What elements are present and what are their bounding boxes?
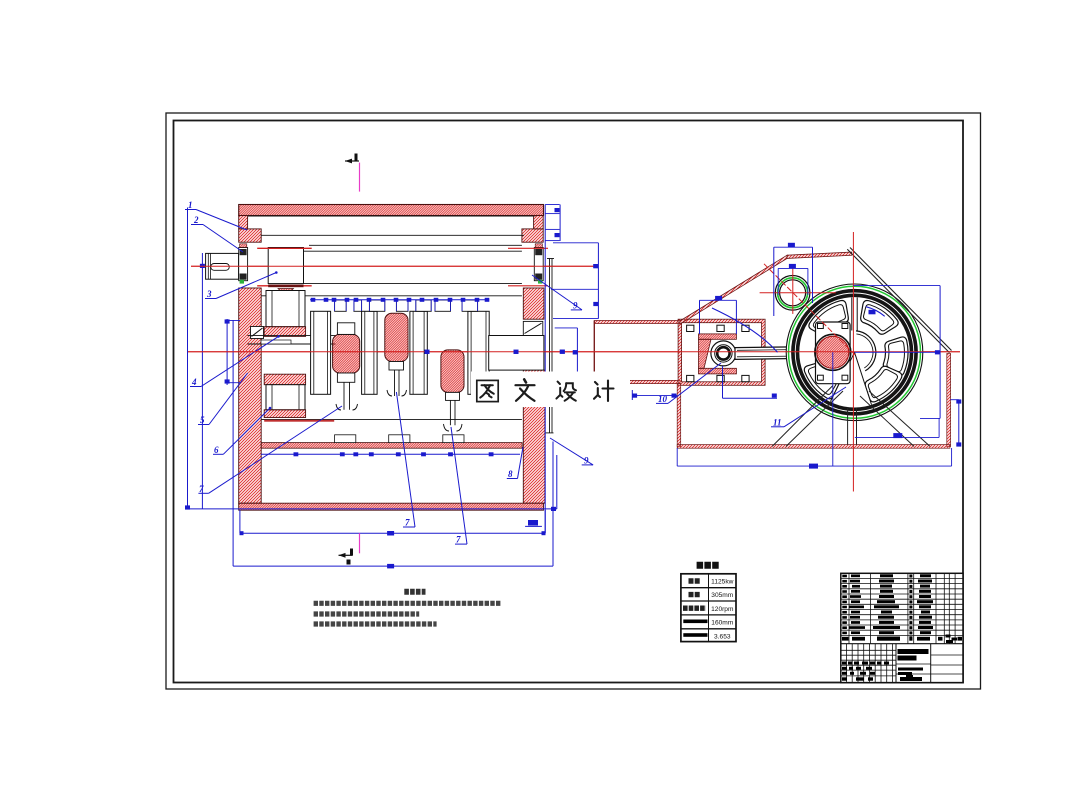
section mark bottom xyxy=(339,533,360,564)
left bottom dim xyxy=(632,395,677,397)
svg-text:120rpm: 120rpm xyxy=(711,606,734,613)
dim vertical left3 xyxy=(232,320,234,566)
intermediate shaft lines xyxy=(248,335,337,337)
svg-text:160mm: 160mm xyxy=(711,620,733,627)
guard right diagonal xyxy=(847,249,949,353)
svg-text:3: 3 xyxy=(206,289,212,299)
bore line upper xyxy=(304,250,522,252)
title block lower grid xyxy=(841,644,963,683)
top dim row over valves xyxy=(310,299,489,301)
right crankcase wall upper xyxy=(523,288,544,319)
right cover plate xyxy=(545,259,554,433)
top spoke xyxy=(851,298,853,331)
centerline overlay upper xyxy=(191,265,595,267)
dim verticals bottom xyxy=(239,510,241,533)
upper shaft centerline xyxy=(191,265,595,267)
valve box 6 xyxy=(435,300,451,311)
parameter table title xyxy=(697,562,720,569)
piston 2 (hatched) xyxy=(385,313,408,396)
base left wall xyxy=(677,384,681,447)
rim mid white line xyxy=(795,293,914,412)
bore line lower xyxy=(304,283,522,285)
crankshaft output end xyxy=(489,336,544,371)
watermark glyph tu xyxy=(477,380,498,401)
watermark glyph wen xyxy=(516,379,535,400)
leader 9 upper xyxy=(532,275,582,310)
guide top line xyxy=(261,295,522,297)
red mark line upper xyxy=(257,247,312,249)
leader 6 xyxy=(213,408,270,455)
right red marks xyxy=(508,247,548,249)
leader 7 left xyxy=(198,406,342,494)
title block parts grid xyxy=(841,573,963,643)
centerline squares xyxy=(514,350,519,354)
crosshead guide block 1 xyxy=(311,311,331,394)
crankshaft centerline (spans both views) xyxy=(188,351,960,353)
outer border frame xyxy=(166,113,981,689)
crosshead pin xyxy=(711,341,736,366)
pulley vertical centerline xyxy=(792,267,794,314)
pulley dim inner xyxy=(777,268,779,295)
pulley horizontal centerline xyxy=(760,292,836,294)
guard right strip (hatched) xyxy=(947,354,951,447)
note line 3 xyxy=(314,621,437,626)
box bolt bottom xyxy=(742,375,749,381)
valve box 7 xyxy=(462,300,478,311)
flywheel sector 4 xyxy=(804,362,839,399)
mid band dim row xyxy=(261,453,520,455)
crank pin (hatched) xyxy=(815,334,851,370)
svg-text:10: 10 xyxy=(658,394,668,404)
dark band xyxy=(268,285,303,288)
box bolt bottom xyxy=(687,375,694,381)
bottom dim line 1 xyxy=(188,508,557,510)
valve seat notch 2 xyxy=(389,435,410,443)
small dim under slab right xyxy=(525,525,542,527)
svg-text:7: 7 xyxy=(456,535,461,545)
box bolt bottom xyxy=(717,375,724,381)
box bolt top xyxy=(742,325,749,331)
leader 5 xyxy=(198,373,248,425)
svg-text:8: 8 xyxy=(508,469,513,479)
box bolt top xyxy=(687,325,694,331)
valve box 1 xyxy=(335,300,347,311)
leader 7 mid xyxy=(396,392,415,528)
base bottom band xyxy=(677,445,950,449)
hub arc xyxy=(856,331,876,371)
svg-text:1125kw: 1125kw xyxy=(711,578,733,585)
crank vertical line xyxy=(832,352,834,466)
note line 2 xyxy=(314,611,420,616)
svg-text:6: 6 xyxy=(214,445,219,455)
section mark top xyxy=(345,154,360,192)
right column xyxy=(534,216,544,229)
left main bearing xyxy=(239,244,248,284)
guide tube bottom wall xyxy=(594,380,680,383)
left wall bearing cage xyxy=(251,327,264,339)
parameter table frame xyxy=(681,574,736,642)
inner bottom band xyxy=(261,443,522,449)
dim vertical left2 xyxy=(201,253,203,509)
crank big-end head xyxy=(816,322,851,384)
centerline overlay main xyxy=(188,351,960,353)
parts header blobs xyxy=(842,635,962,644)
leader 8 xyxy=(507,447,523,479)
right vertical dim xyxy=(958,400,960,447)
lower text blobs xyxy=(842,662,923,682)
flywheel sector 2 xyxy=(861,300,899,334)
crosshead wedge xyxy=(699,339,712,368)
stand legs xyxy=(772,385,930,446)
funnel xyxy=(278,289,294,295)
svg-text:4: 4 xyxy=(191,377,197,387)
crosshead pin vertical dim xyxy=(722,366,724,398)
upper guide spool xyxy=(264,291,305,337)
bottom dim line 3 xyxy=(233,565,553,567)
crosshead guide block 4 xyxy=(468,311,489,394)
crosshead guide block 2 xyxy=(362,311,378,394)
line under beam xyxy=(248,215,536,217)
connecting rod xyxy=(735,347,816,360)
flywheel rim (thick) xyxy=(795,293,914,412)
diagonal centerline xyxy=(764,264,856,356)
valve box 2 xyxy=(354,300,362,311)
right crankcase wall lower xyxy=(523,370,545,503)
flywheel vertical centerline xyxy=(852,232,854,492)
barrel line 2 xyxy=(309,244,522,246)
leader 11 xyxy=(771,387,846,427)
shaft keyway xyxy=(211,264,229,271)
valve box 3 xyxy=(369,300,384,311)
guide tube top wall xyxy=(594,321,680,324)
coupling hub xyxy=(268,248,303,284)
crank circle arc xyxy=(712,308,778,352)
box bolt top xyxy=(717,325,724,331)
left crankcase wall xyxy=(239,288,262,503)
bottom dim line 2 xyxy=(240,532,545,534)
svg-text:11: 11 xyxy=(773,417,782,427)
piston 3 (hatched) xyxy=(441,350,464,431)
box top dim xyxy=(700,299,737,301)
inner border frame xyxy=(174,121,964,683)
valve seat notch 3 xyxy=(443,435,464,443)
right dim box xyxy=(597,243,599,319)
watermark glyph she xyxy=(556,382,576,401)
right vertical dim connector xyxy=(544,205,546,534)
flywheel outer circle xyxy=(786,284,923,421)
svg-text:3.653: 3.653 xyxy=(714,633,731,640)
right main bearing xyxy=(534,244,543,284)
flywheel sector 1 xyxy=(809,300,848,336)
right step block xyxy=(522,229,543,242)
lower red strip xyxy=(264,420,334,422)
crosshead shoe bottom flange xyxy=(699,368,737,374)
svg-text:2: 2 xyxy=(193,215,199,225)
lower rail line xyxy=(261,418,522,420)
top beam (hatched cylinder body) xyxy=(239,205,544,216)
leader 7 right xyxy=(451,427,467,545)
svg-text:1: 1 xyxy=(188,200,193,210)
param black bars xyxy=(683,620,707,624)
valve box 4 xyxy=(396,300,408,311)
crank end dim xyxy=(555,327,578,329)
valve box 5 xyxy=(416,300,431,311)
right wall bearing cage xyxy=(523,321,543,335)
flywheel green circle xyxy=(789,286,921,418)
right top bracket 2 xyxy=(545,228,559,230)
left step block xyxy=(239,229,262,242)
pulley dim outer xyxy=(773,247,775,316)
drive shaft stub xyxy=(206,253,239,279)
svg-text:7: 7 xyxy=(199,484,204,494)
svg-text:305mm: 305mm xyxy=(711,592,733,599)
flywheel sector 3 xyxy=(883,337,908,376)
belt guard top strip xyxy=(787,252,852,258)
bottom slab xyxy=(239,503,544,510)
left column xyxy=(239,216,248,229)
dim bracket left wall xyxy=(226,319,228,385)
re-stamped centerline squares xyxy=(425,264,599,354)
svg-text:5: 5 xyxy=(200,415,205,425)
sector arc dim xyxy=(866,307,885,317)
leader 10 xyxy=(656,363,721,404)
flywheel sector 5 xyxy=(865,366,902,402)
bottom dim wide xyxy=(677,465,951,467)
lower guide spool xyxy=(264,374,305,417)
dim vertical far left xyxy=(187,208,189,508)
piston 1 (hatched) xyxy=(333,323,360,410)
note line 1 xyxy=(314,601,502,606)
bottom wedge (open slice) xyxy=(830,352,871,404)
title block outer frame xyxy=(841,573,963,682)
belt guard diagonal strip xyxy=(680,255,787,324)
crosshead guide block 3 xyxy=(410,311,427,394)
leader 3 xyxy=(205,273,276,300)
valve seat notch 1 xyxy=(335,435,356,443)
red mark line lower xyxy=(257,285,312,287)
crosshead guide box (hatched border) xyxy=(678,319,765,385)
watermark background box xyxy=(471,372,630,408)
right top bracket 1 xyxy=(545,204,559,206)
notes title xyxy=(404,589,425,595)
leader 9 lower xyxy=(550,438,593,465)
leader 2 xyxy=(191,215,243,252)
svg-text:7: 7 xyxy=(405,518,410,528)
leader 4 xyxy=(190,336,279,387)
motor pulley xyxy=(775,276,810,311)
parts list text blobs xyxy=(842,574,933,634)
radius dim box xyxy=(939,286,941,419)
leader 1 xyxy=(185,200,247,230)
drawing title blob xyxy=(898,649,929,661)
watermark glyph ji xyxy=(594,381,614,401)
param labels xyxy=(683,581,706,608)
cylinder barrel top line xyxy=(261,234,524,236)
bottom dim small xyxy=(855,436,939,438)
tube left cap xyxy=(593,321,595,384)
crosshead shoe top flange xyxy=(699,334,737,339)
